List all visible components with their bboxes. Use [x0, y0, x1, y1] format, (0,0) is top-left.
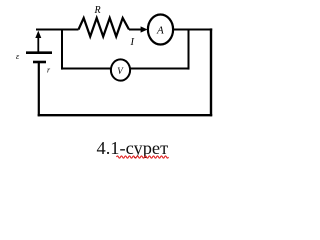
ammeter A: [148, 15, 173, 45]
svg-text:ε: ε: [16, 52, 20, 61]
wire voltmeter branch left segment: [61, 68, 112, 70]
wire bottom horizontal: [38, 114, 213, 116]
wire voltmeter branch right segment: [130, 68, 190, 70]
battery long plate (positive): [26, 51, 52, 54]
wire ammeter to top-right corner: [173, 29, 212, 31]
resistor R zigzag: [79, 18, 130, 37]
wire right outer vertical: [210, 28, 212, 116]
svg-text:4.1-сурет: 4.1-сурет: [97, 138, 169, 158]
svg-text:I: I: [130, 37, 135, 48]
svg-text:A: A: [156, 25, 164, 37]
wire top-left horizontal (battery arrow to resistor): [36, 29, 79, 31]
current direction arrow I: [141, 26, 148, 32]
wire inner-right vertical (voltmeter branch to top wire): [188, 29, 190, 70]
svg-text:R: R: [94, 5, 101, 16]
wire inner-left vertical (top wire to voltmeter branch): [61, 29, 63, 70]
svg-text:r: r: [47, 66, 51, 75]
voltmeter V: [111, 59, 130, 80]
wire battery to bottom-left corner: [38, 62, 40, 116]
battery EMF direction arrow: [35, 31, 41, 52]
spell-check red wavy underline: [117, 156, 169, 158]
wire resistor to current arrow: [129, 29, 142, 31]
battery short plate (negative): [33, 61, 46, 64]
